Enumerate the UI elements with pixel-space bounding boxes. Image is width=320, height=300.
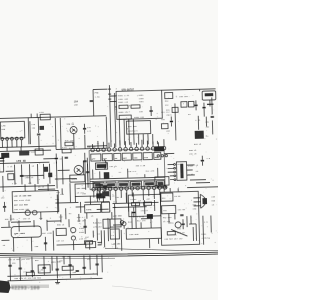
svg-text:AFT: AFT — [92, 157, 97, 160]
hybrid module Y301 — [96, 193, 105, 198]
svg-text:C52: C52 — [87, 258, 91, 261]
svg-text:R201: R201 — [62, 146, 68, 149]
wire: bus drops — [10, 255, 98, 281]
transistor Q701 — [70, 126, 77, 133]
svg-text:R61: R61 — [170, 221, 174, 224]
svg-text:R C: R C — [113, 200, 117, 203]
svg-text:T801: T801 — [139, 100, 145, 103]
node: marks — [98, 242, 102, 245]
svg-text:R4: R4 — [69, 212, 72, 215]
box E — [56, 228, 66, 235]
svg-text:1k: 1k — [196, 164, 199, 167]
svg-text:C810 472: C810 472 — [128, 129, 138, 132]
svg-text:R83 1k: R83 1k — [194, 143, 202, 146]
wire: U801 inputs — [110, 96, 117, 107]
wire: bus y147.5 — [0, 146, 56, 147]
resistor R501 — [62, 266, 73, 270]
resistor R807 — [119, 115, 131, 119]
wire: y246 — [57, 244, 72, 246]
resistor R813 — [172, 107, 178, 112]
capacitor C507 — [56, 269, 59, 270]
wire: bl vert extra — [52, 255, 102, 274]
wire: comb feeds to U301 — [119, 119, 157, 145]
sound box — [126, 228, 161, 239]
node: bus y147.5 taps — [7, 146, 39, 151]
wire: ground bus A — [105, 248, 218, 250]
wire: y227 — [1, 226, 11, 228]
wire: grid verticals b — [56, 156, 93, 189]
coil L501 — [38, 265, 50, 273]
module box M601 — [162, 205, 176, 213]
svg-text:C66 R67 4k7 25V: C66 R67 4k7 25V — [164, 237, 183, 240]
wire: y187 — [0, 186, 55, 187]
chroma box outline — [128, 194, 161, 216]
power block U801 outline — [116, 90, 162, 119]
svg-text:25V: 25V — [206, 125, 210, 128]
capacitor C509 — [76, 270, 79, 271]
svg-text:C 1k: C 1k — [12, 182, 18, 185]
wire: U601 right pins — [187, 165, 195, 175]
svg-text:L08 C09: L08 C09 — [113, 214, 123, 217]
svg-text:C60: C60 — [211, 195, 215, 198]
svg-text:C61 R0: C61 R0 — [178, 208, 186, 211]
svg-text:R70 220: R70 220 — [65, 139, 74, 142]
capacitor C701 — [37, 134, 40, 135]
svg-text:R806 1k2: R806 1k2 — [119, 111, 129, 114]
dark module B — [102, 191, 109, 196]
capacitor C505 — [31, 271, 34, 272]
left column wires — [85, 153, 88, 190]
svg-text:L608: L608 — [157, 181, 163, 184]
svg-text:F70: F70 — [95, 91, 100, 94]
video box outline — [75, 183, 100, 196]
transistor Q206 — [32, 210, 37, 215]
svg-text:C4: C4 — [97, 232, 100, 235]
wire: band verts b — [13, 231, 54, 252]
capacitor C611 — [181, 219, 184, 229]
resistor R502 — [26, 272, 34, 276]
resistor R811 — [188, 101, 194, 107]
module right of U801 — [165, 92, 173, 98]
box on y151 bus — [35, 149, 43, 155]
resistor R311 — [144, 202, 152, 205]
diode D204 — [48, 173, 52, 178]
wire: fuse branch — [93, 89, 108, 116]
wire: fine verts — [61, 213, 102, 250]
svg-text:C09: C09 — [193, 207, 197, 210]
wire: ground bus B — [0, 252, 218, 254]
wire: faint bottom diagonal — [112, 286, 152, 291]
svg-text:1k: 1k — [212, 203, 215, 206]
capacitor C506 — [68, 265, 71, 266]
wire: Q801 out — [209, 100, 211, 106]
wire: C70 pair — [28, 118, 30, 145]
svg-text:472: 472 — [23, 270, 27, 273]
svg-text:C5 R5: C5 R5 — [174, 195, 181, 198]
svg-text:R53 C54 1k 470 C55 R56: R53 C54 1k 470 C55 R56 — [14, 276, 41, 280]
wire: under-IC verticals — [93, 168, 158, 179]
svg-text:C82: C82 — [165, 104, 169, 107]
svg-text:C57 103 R58: C57 103 R58 — [14, 203, 29, 206]
capacitor C204 — [65, 157, 68, 158]
wire: bottom link — [8, 278, 103, 280]
wire: band verts a — [9, 220, 47, 232]
svg-text:OSC DRV: OSC DRV — [128, 125, 138, 128]
svg-text:C64: C64 — [177, 227, 181, 230]
svg-text:7.7k: 7.7k — [188, 173, 194, 176]
capacitor C209 — [44, 243, 47, 244]
svg-text:LA: LA — [177, 163, 180, 166]
svg-text:C07 10: C07 10 — [56, 239, 64, 242]
box F — [103, 219, 110, 228]
svg-text:L701: L701 — [39, 111, 45, 114]
wire: sub bus 1 — [90, 177, 165, 179]
svg-text:303 8.8R: 303 8.8R — [136, 164, 146, 167]
inductor L701 on rail — [40, 114, 50, 120]
wire: primary verticals — [60, 117, 85, 149]
dark module A — [104, 172, 110, 179]
wire: right extra — [164, 187, 196, 241]
box G — [110, 219, 121, 227]
svg-text:C80: C80 — [139, 110, 143, 113]
svg-text:Q05 150R: Q05 150R — [14, 232, 25, 235]
resistor R310 — [132, 202, 140, 205]
svg-text:R65 10: R65 10 — [177, 231, 185, 234]
svg-text:C2: C2 — [119, 171, 122, 174]
wire: y240 — [1, 239, 9, 241]
svg-text:C59 470u 16V: C59 470u 16V — [14, 208, 30, 211]
resistor R805 — [131, 105, 140, 108]
svg-text:SW: SW — [115, 157, 118, 160]
svg-text:C41 R44: C41 R44 — [77, 187, 87, 190]
capacitor C501 — [8, 265, 11, 266]
svg-text:C: C — [50, 217, 52, 220]
transistor Q208 — [71, 236, 75, 240]
svg-text:S20 S-S: S20 S-S — [128, 170, 137, 173]
wire: ground bus C — [0, 254, 218, 256]
yoke plug P601 — [199, 194, 201, 208]
svg-text:R05 1k: R05 1k — [57, 223, 65, 226]
capacitor C205 — [3, 202, 6, 212]
box H dark — [110, 229, 119, 239]
svg-text:1k 472: 1k 472 — [77, 191, 85, 194]
svg-text:103: 103 — [166, 130, 170, 133]
svg-text:1.0: 1.0 — [87, 130, 91, 133]
wire: main vertical feed — [109, 85, 111, 147]
svg-text:R07 470k: R07 470k — [42, 232, 52, 235]
diode D205 — [102, 185, 108, 190]
wire: sub bus 2 — [90, 179, 165, 181]
resistor R812 — [161, 124, 168, 129]
resistor R613 — [167, 231, 175, 235]
primary box edges — [55, 117, 107, 150]
wire: bottom pin drops — [94, 189, 160, 203]
regulator Q801 — [202, 91, 216, 100]
resistor R203 — [8, 174, 14, 180]
wire: center extra verts — [114, 192, 156, 251]
svg-text:R47: R47 — [85, 236, 89, 239]
IC U301 pin circles top — [91, 148, 94, 151]
transistor Q302 — [120, 220, 124, 224]
wire: y190 — [95, 186, 112, 188]
box top-left defl — [161, 193, 173, 201]
svg-text:VID: VID — [134, 156, 139, 159]
svg-text:LR05 1k: LR05 1k — [25, 176, 34, 179]
svg-text:R22 470: R22 470 — [146, 169, 155, 172]
transistor Q209 — [122, 222, 126, 226]
wire: center horiz y206.5 — [113, 202, 159, 203]
resistor R408 — [84, 241, 92, 245]
svg-text:10k: 10k — [28, 182, 32, 185]
wire: grid verticals a — [14, 164, 50, 185]
wire: diag — [171, 229, 187, 236]
svg-text:1k: 1k — [91, 215, 94, 218]
capacitor C700 — [90, 101, 93, 102]
deflection box outline — [160, 191, 199, 245]
svg-text:4k 1k: 4k 1k — [38, 185, 45, 188]
svg-text:R10 C10: R10 C10 — [26, 151, 35, 154]
svg-text:M61: M61 — [163, 209, 167, 212]
coil L608 pins — [157, 186, 159, 188]
wire: ground bus D — [0, 257, 115, 260]
capacitor C310 — [132, 207, 135, 217]
capacitor C504 — [82, 267, 85, 268]
wire: texture horizontals — [5, 143, 210, 188]
svg-text:45: 45 — [3, 244, 6, 247]
wire: y209 — [76, 206, 85, 208]
svg-text:R464: R464 — [201, 233, 207, 236]
svg-text:R485: R485 — [79, 231, 85, 234]
capacitor C201 — [55, 153, 58, 163]
svg-text:C50 1k R52 470 C53: C50 1k R52 470 C53 — [8, 258, 30, 262]
resistor R804 — [119, 105, 128, 108]
wire: AC input top rail — [0, 116, 106, 119]
svg-text:1.0: 1.0 — [206, 157, 210, 160]
audio box outline — [12, 190, 59, 212]
svg-text:V-OUT: V-OUT — [176, 190, 183, 193]
module D — [101, 202, 109, 212]
svg-text:1kV: 1kV — [1, 196, 5, 199]
svg-text:C 1k: C 1k — [7, 165, 13, 168]
driver sub-box — [126, 121, 150, 135]
connector block row — [94, 182, 104, 188]
node: rail taps — [31, 114, 37, 118]
wire: left extra verts — [3, 173, 98, 220]
svg-text:R56 470u 1k05: R56 470u 1k05 — [14, 199, 31, 202]
svg-text:R82: R82 — [165, 100, 169, 103]
wire: grid verticals c — [57, 182, 104, 213]
wire: bus y151.5 — [0, 150, 51, 151]
wire: texture horizontals 2 — [11, 208, 154, 246]
diode D202 — [19, 151, 29, 156]
transistor Q601 — [175, 222, 181, 228]
wire: bl extra — [7, 274, 97, 276]
svg-text:4.7k/8A: 4.7k/8A — [201, 237, 210, 240]
wire: U801 top out — [162, 89, 216, 90]
svg-text:C31 1k: C31 1k — [110, 165, 118, 168]
wire: top pin stubs — [92, 139, 164, 148]
capacitor C808b — [202, 103, 205, 113]
module C dark — [85, 204, 101, 212]
capacitor C508 — [42, 267, 45, 268]
wire: right edge vert — [211, 97, 214, 134]
svg-text:R51: R51 — [35, 259, 39, 262]
capacitor C806 — [149, 106, 152, 116]
wire: C701 stem — [37, 117, 40, 146]
svg-text:L05 1k C55 R55: L05 1k C55 R55 — [14, 194, 32, 197]
capacitor C807b — [194, 100, 197, 110]
capacitor C203 — [20, 175, 23, 176]
svg-text:3: 3 — [115, 87, 117, 90]
module SP121 — [70, 175, 85, 182]
box I — [86, 242, 96, 248]
svg-text:470 25V: 470 25V — [93, 225, 102, 228]
svg-text:C49: C49 — [99, 242, 103, 245]
wire: y190b — [38, 188, 55, 190]
svg-text:C05 C06: C05 C06 — [179, 95, 188, 98]
diode D810 — [195, 131, 204, 139]
capacitor C610 — [201, 156, 204, 166]
capacitor C503 — [95, 264, 98, 265]
svg-text:25V: 25V — [59, 259, 63, 262]
svg-text:C6: C6 — [196, 170, 199, 173]
delay module DL301 — [95, 163, 107, 170]
diode D201 — [1, 153, 9, 158]
svg-text:1.6A: 1.6A — [95, 95, 101, 98]
svg-text:L48 1kX: L48 1kX — [112, 242, 122, 245]
diode D203 — [44, 167, 49, 172]
wire: y204.5 — [55, 202, 109, 203]
bracket connector — [104, 159, 106, 169]
svg-text:T70 SW: T70 SW — [66, 123, 74, 126]
svg-text:SYN: SYN — [144, 156, 149, 159]
svg-text:DEG: DEG — [2, 128, 6, 131]
capacitor C809 — [170, 116, 173, 126]
transistor Q207 — [71, 227, 76, 232]
svg-text:DET: DET — [123, 156, 128, 159]
svg-text:R31: R31 — [115, 196, 119, 199]
svg-text:4k7: 4k7 — [146, 198, 150, 201]
node: left dashes — [0, 158, 4, 161]
svg-text:VIF: VIF — [103, 157, 108, 160]
svg-text:R809 330: R809 330 — [134, 116, 144, 119]
wire: right col feed — [174, 103, 177, 140]
wire: T701 drops — [2, 140, 21, 148]
transistor Q201 — [74, 165, 83, 174]
wire: plug feeds — [193, 198, 200, 206]
IC U301 outer outline — [89, 149, 165, 190]
svg-text:L4: L4 — [111, 234, 114, 237]
IC U601 vertical — [176, 162, 186, 181]
svg-text:R06 470k: R06 470k — [5, 218, 15, 221]
svg-text:C81: C81 — [205, 120, 209, 123]
wire: Q801 feed — [199, 89, 201, 91]
svg-text:C3: C3 — [138, 199, 141, 202]
IC U301 pin circles bottom — [92, 188, 95, 191]
resistor R810 — [181, 102, 187, 108]
wire: band verts c — [69, 218, 109, 250]
svg-text:C52 25: C52 25 — [189, 152, 197, 155]
wire: y163.5 — [0, 162, 49, 163]
capacitor C502 — [18, 268, 21, 269]
svg-text:SP121: SP121 — [71, 178, 78, 181]
svg-text:B+: B+ — [206, 135, 209, 138]
wire: right verticals — [178, 188, 211, 246]
svg-text:738: 738 — [31, 127, 35, 130]
svg-text:C B: C B — [204, 221, 208, 224]
svg-text:C A 1k: C A 1k — [137, 215, 145, 218]
svg-text:472: 472 — [168, 113, 172, 116]
capacitor C705 — [83, 124, 86, 134]
svg-text:L50: L50 — [40, 268, 44, 271]
svg-text:C08 1k: C08 1k — [23, 217, 31, 220]
svg-text:C48 R48: C48 R48 — [129, 233, 139, 236]
component row right of IC — [154, 146, 164, 151]
svg-text:C45 R46: C45 R46 — [93, 221, 102, 224]
stamp blob — [0, 281, 11, 294]
label: feed pin numbers — [108, 89, 111, 99]
svg-text:15R: 15R — [74, 103, 79, 106]
capacitor C407 — [83, 226, 86, 227]
svg-text:STR-S6707: STR-S6707 — [122, 88, 135, 91]
diode D206 — [147, 214, 153, 218]
svg-text:R62 C63: R62 C63 — [163, 216, 172, 219]
svg-text:C1 R2: C1 R2 — [130, 198, 137, 201]
svg-text:1k: 1k — [31, 165, 34, 168]
svg-text:C09: C09 — [35, 245, 39, 248]
IC U601 pins — [174, 164, 176, 166]
wire: right col vertical — [198, 116, 206, 130]
svg-text:R12 470: R12 470 — [137, 219, 146, 222]
wire: center horiz y210.5 — [113, 206, 147, 209]
svg-text:R2: R2 — [188, 113, 191, 116]
transformer T701 — [0, 121, 24, 138]
svg-text:1k: 1k — [153, 204, 156, 207]
resistor R201 — [62, 149, 71, 153]
svg-text:R803 220: R803 220 — [118, 101, 128, 104]
svg-text:H01: H01 — [162, 197, 166, 200]
terminal strip — [0, 158, 4, 172]
wire: defl verts — [169, 213, 194, 242]
IC U301 pin block row — [91, 154, 101, 161]
svg-text:R60: R60 — [211, 199, 215, 202]
svg-text:1k 472: 1k 472 — [163, 220, 171, 223]
coil L608 — [155, 177, 169, 186]
transistor Q205 — [25, 210, 30, 215]
capacitor C612 — [180, 215, 183, 216]
wire: right bus y192 — [187, 186, 218, 189]
ground: bottom stub — [55, 279, 60, 283]
wire: y180.5 — [55, 177, 77, 180]
capacitor C813 — [211, 116, 214, 117]
resistor R703 — [65, 142, 73, 146]
wire: center band verts — [112, 211, 159, 245]
wire: second vertical feed — [114, 93, 115, 147]
svg-text:R81: R81 — [161, 118, 165, 121]
relay box — [11, 226, 41, 238]
